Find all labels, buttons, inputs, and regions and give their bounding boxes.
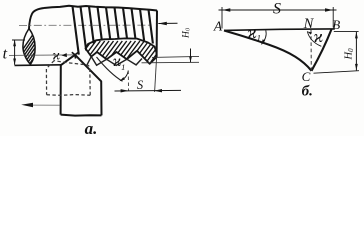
svg-text:t: t: [3, 46, 8, 63]
svg-text:A: A: [213, 19, 223, 34]
svg-text:С: С: [302, 69, 311, 84]
svg-text:B: B: [332, 17, 340, 32]
svg-text:а.: а.: [85, 119, 98, 136]
svg-text:1: 1: [257, 34, 262, 44]
svg-text:1: 1: [121, 62, 125, 72]
svg-text:ϰ: ϰ: [52, 49, 60, 64]
svg-text:S: S: [137, 78, 144, 92]
svg-text:ϰ: ϰ: [314, 27, 324, 46]
svg-text:S: S: [273, 1, 281, 18]
svg-text:б.: б.: [302, 84, 313, 100]
